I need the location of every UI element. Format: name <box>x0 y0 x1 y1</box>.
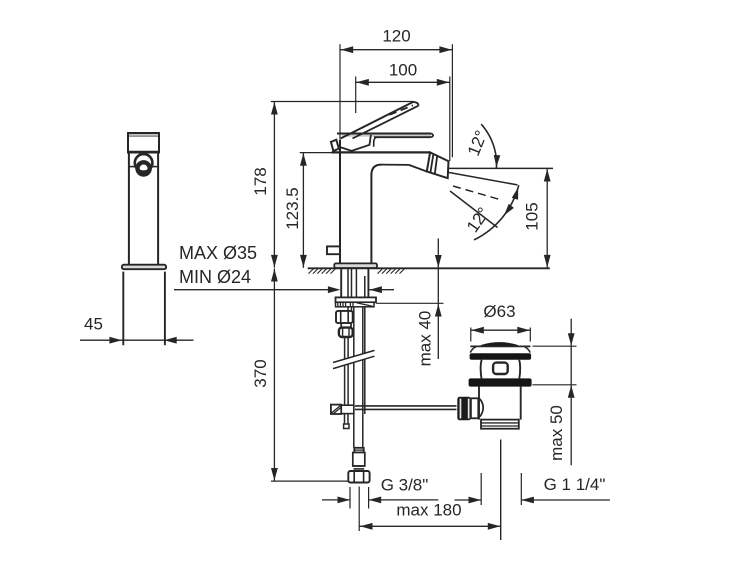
angle arc lower <box>474 185 521 240</box>
svg-text:120: 120 <box>382 26 410 45</box>
svg-text:123.5: 123.5 <box>283 187 302 230</box>
label 12 deg upper <box>464 128 491 159</box>
horseshoe nut plate <box>336 297 377 302</box>
dimension 45 <box>80 315 194 344</box>
lever bar <box>337 134 433 138</box>
spray line down <box>450 191 498 228</box>
pop-up knob tab <box>327 246 340 254</box>
pop-up rod upper <box>348 268 356 311</box>
pop-up seal band <box>470 353 531 360</box>
supply hose <box>354 307 363 448</box>
lever pivot cap <box>331 140 339 151</box>
svg-text:Ø63: Ø63 <box>483 302 515 321</box>
drain clevis <box>457 397 483 421</box>
svg-text:max 40: max 40 <box>415 311 434 367</box>
label G 1 1/4 <box>455 473 610 505</box>
hose coupler barrel <box>339 328 353 337</box>
rod clamp screw <box>331 405 354 414</box>
front body left edge <box>339 140 341 265</box>
dimension 123.5 <box>283 153 332 268</box>
angle arc upper <box>481 124 500 168</box>
side view body <box>129 153 158 265</box>
deck line <box>308 267 550 269</box>
horizontal drain rod <box>355 406 457 410</box>
drain seal band <box>469 378 532 386</box>
hose coupler hex <box>336 311 353 323</box>
side view base column <box>123 272 165 346</box>
label G 3/8 <box>322 475 438 508</box>
hose end neck <box>353 453 365 469</box>
dimension 178 <box>251 102 414 268</box>
side view cap <box>127 133 160 153</box>
dimension 105 <box>522 169 550 268</box>
svg-text:45: 45 <box>84 315 103 334</box>
spray head block <box>427 152 449 178</box>
side view handle knob <box>129 154 158 174</box>
spray line 12 deg <box>448 172 517 185</box>
svg-text:max 50: max 50 <box>547 405 566 461</box>
dimension max 50 <box>533 319 577 466</box>
second hose line <box>364 276 366 414</box>
svg-text:105: 105 <box>522 202 541 230</box>
svg-text:100: 100 <box>389 60 417 79</box>
horseshoe nut lower <box>336 302 375 307</box>
pop-up cap dome <box>470 343 530 352</box>
hose break gap <box>333 350 375 368</box>
lever wedge face <box>341 135 377 151</box>
label 12 deg lower <box>463 204 493 236</box>
spray line horizontal <box>448 167 553 169</box>
label MAX MIN diameter <box>174 243 394 293</box>
svg-text:370: 370 <box>251 359 270 387</box>
svg-text:MAX Ø35: MAX Ø35 <box>179 243 257 263</box>
dimension diameter 63 <box>471 302 531 342</box>
svg-text:G 3/8": G 3/8" <box>381 475 429 494</box>
side view flange <box>122 265 166 270</box>
lever blade <box>341 102 419 139</box>
drain collar <box>481 420 519 429</box>
dimension 370 <box>251 269 348 482</box>
svg-text:max 180: max 180 <box>396 500 461 519</box>
spout underside <box>382 165 427 172</box>
dimension 120 <box>340 26 452 157</box>
drain tube <box>479 387 521 420</box>
front body right edge <box>371 165 381 265</box>
pop-up rod mid <box>345 337 349 405</box>
drain centerline <box>500 440 502 541</box>
lever hidden edge dashed <box>390 105 414 115</box>
spray centerline dashed <box>453 186 502 200</box>
dimension 100 <box>356 60 450 161</box>
front base flange <box>334 263 377 268</box>
pop-up valve body <box>481 360 521 379</box>
front body top and spout top line <box>332 151 431 153</box>
pop-up rod stub <box>344 414 349 429</box>
svg-text:MIN Ø24: MIN Ø24 <box>179 267 251 287</box>
threaded shank walls <box>341 268 368 297</box>
dimension max 40 <box>376 239 443 367</box>
dimension max 180 <box>359 487 501 532</box>
deck hatching <box>309 269 405 274</box>
hose end hex nut <box>348 471 369 483</box>
hose end collar <box>354 448 363 453</box>
hose coupler neck <box>341 323 351 328</box>
svg-text:G 1 1/4": G 1 1/4" <box>544 475 606 494</box>
svg-text:178: 178 <box>251 167 270 195</box>
